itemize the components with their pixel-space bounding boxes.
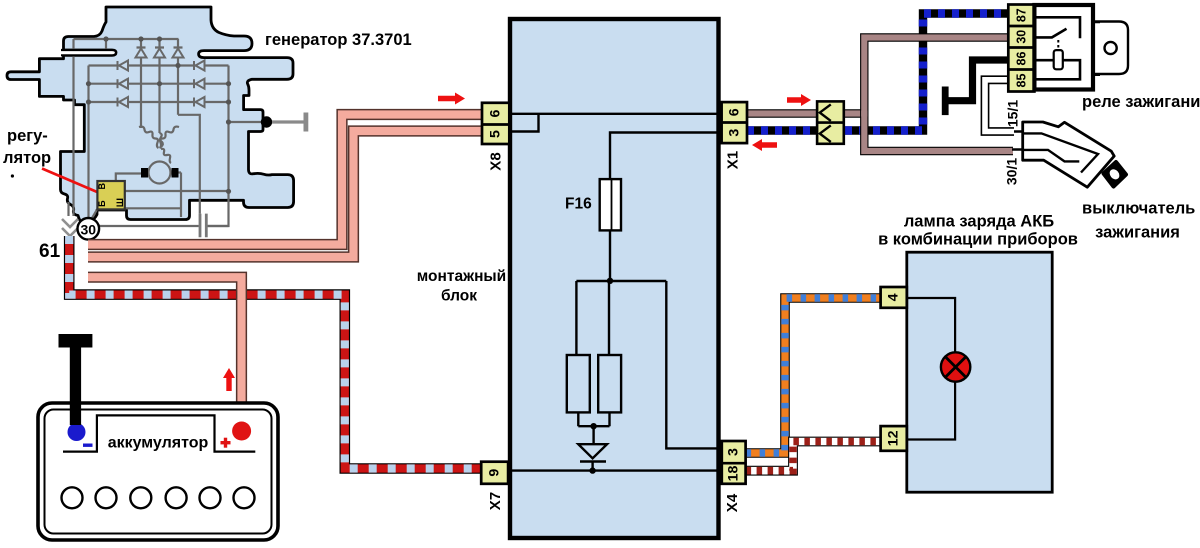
svg-text:блок: блок (441, 288, 477, 305)
svg-text:монтажный: монтажный (417, 268, 506, 285)
svg-text:генератор 37.3701: генератор 37.3701 (265, 31, 412, 49)
svg-text:3: 3 (726, 129, 742, 137)
svg-text:X4: X4 (724, 493, 741, 512)
svg-text:зажигания: зажигания (1095, 224, 1180, 242)
svg-text:Б: Б (97, 200, 107, 207)
svg-text:12: 12 (886, 430, 902, 446)
svg-text:В: В (97, 182, 107, 189)
svg-text:9: 9 (487, 469, 503, 477)
svg-text:4: 4 (886, 293, 902, 301)
svg-text:6: 6 (726, 108, 742, 116)
svg-text:Ш: Ш (115, 198, 125, 207)
svg-text:87: 87 (1014, 8, 1028, 22)
svg-text:61: 61 (39, 241, 61, 262)
svg-text:аккумулятор: аккумулятор (108, 435, 209, 452)
svg-text:30: 30 (1014, 30, 1028, 44)
svg-text:регу-: регу- (7, 127, 48, 145)
svg-text:в комбинации приборов: в комбинации приборов (878, 231, 1078, 249)
svg-text:86: 86 (1014, 52, 1028, 66)
svg-text:X7: X7 (487, 492, 504, 510)
svg-text:F16: F16 (565, 196, 592, 213)
svg-text:X8: X8 (488, 152, 505, 170)
svg-text:лампа заряда АКБ: лампа заряда АКБ (904, 213, 1054, 231)
svg-text:85: 85 (1014, 74, 1028, 88)
svg-text:30/1: 30/1 (1004, 158, 1020, 185)
svg-text:15/1: 15/1 (1005, 100, 1021, 127)
svg-text:3: 3 (726, 448, 742, 456)
svg-text:реле зажигания: реле зажигания (1082, 93, 1200, 111)
svg-text:6: 6 (488, 110, 504, 118)
svg-text:5: 5 (488, 130, 504, 138)
svg-text:выключатель: выключатель (1082, 200, 1195, 218)
svg-text:X1: X1 (725, 151, 742, 169)
svg-text:лятор: лятор (3, 149, 51, 167)
svg-text:30: 30 (81, 221, 97, 237)
svg-text:18: 18 (726, 466, 742, 482)
